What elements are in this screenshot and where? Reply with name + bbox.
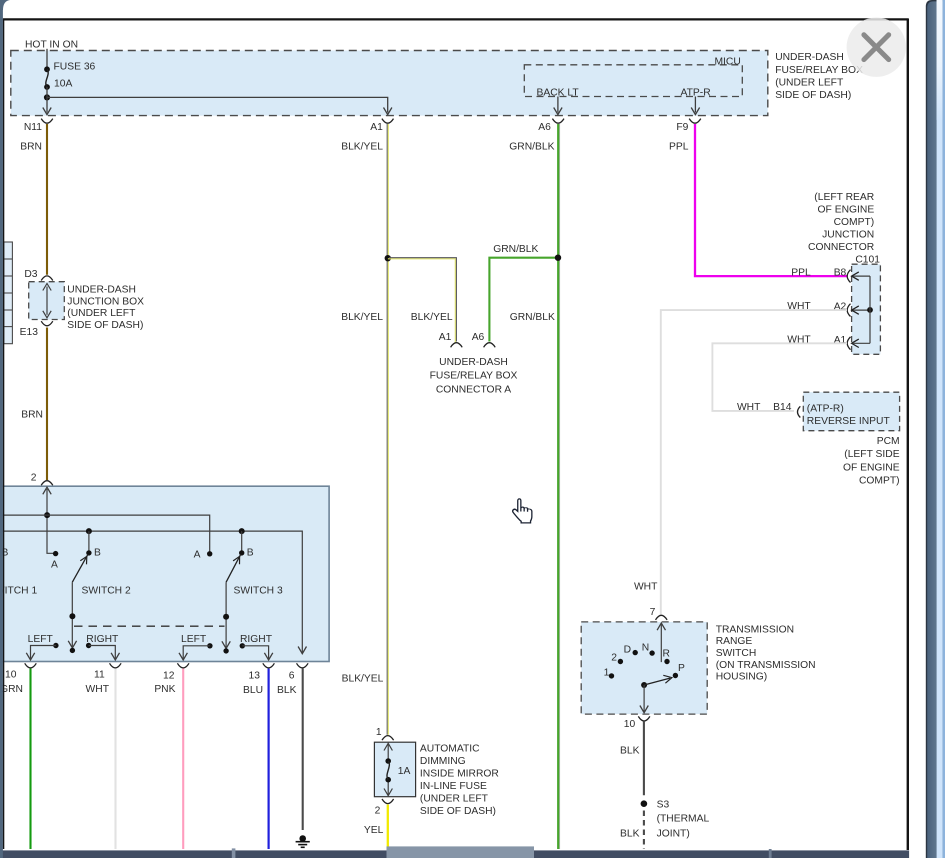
dashed gang line between switch 2 and 3 xyxy=(74,625,225,627)
wire bus line 1 xyxy=(0,515,210,551)
TRS pin 7 internal arrow xyxy=(657,623,665,662)
svg-text:RIGHT: RIGHT xyxy=(240,634,273,645)
switch 2 contacts xyxy=(51,548,131,597)
svg-text:A: A xyxy=(51,559,58,570)
svg-text:SWITCH 3: SWITCH 3 xyxy=(234,585,283,596)
svg-text:1: 1 xyxy=(376,727,382,738)
ground G401 xyxy=(296,835,310,847)
wire BRN N11 to D3 xyxy=(46,124,48,275)
label under-dash fuse/relay box connector A xyxy=(430,357,518,395)
C101 internal bus xyxy=(869,276,871,343)
svg-text:BLK/YEL: BLK/YEL xyxy=(411,312,453,323)
label transmission range switch xyxy=(716,624,816,682)
wire YEL below fuse xyxy=(364,805,388,850)
wire BLK dashed below S3 xyxy=(620,811,644,850)
node HOT IN ON xyxy=(25,40,78,69)
label junction connector C101 xyxy=(808,192,880,265)
svg-text:N: N xyxy=(642,642,649,653)
svg-text:RIGHT: RIGHT xyxy=(86,634,119,645)
label WHT above TRS xyxy=(634,582,658,593)
svg-text:IN-LINE FUSE: IN-LINE FUSE xyxy=(420,781,487,792)
svg-text:13: 13 xyxy=(249,670,261,681)
svg-text:7: 7 xyxy=(650,607,656,618)
label automatic dimming inside mirror in-line fuse xyxy=(420,744,499,818)
svg-text:JUNCTION BOX: JUNCTION BOX xyxy=(67,296,144,307)
wire WHT pin 11 xyxy=(114,669,116,850)
connector pin 2 (switch assembly) xyxy=(31,473,53,486)
svg-text:2: 2 xyxy=(611,653,617,664)
svg-text:(UNDER LEFT: (UNDER LEFT xyxy=(775,77,844,88)
svg-text:1A: 1A xyxy=(398,766,411,777)
connector pin 12 xyxy=(154,663,189,695)
svg-text:(ATP-R): (ATP-R) xyxy=(807,403,844,414)
svg-text:SIDE OF DASH): SIDE OF DASH) xyxy=(420,806,496,817)
svg-text:A6: A6 xyxy=(538,122,551,133)
switch 2 movable arm xyxy=(68,554,88,653)
svg-text:UNDER-DASH: UNDER-DASH xyxy=(775,52,844,63)
connector A pin A6 xyxy=(472,332,496,348)
svg-text:A6: A6 xyxy=(472,332,485,343)
svg-text:(LEFT SIDE: (LEFT SIDE xyxy=(844,449,899,460)
svg-text:S3: S3 xyxy=(657,799,670,810)
svg-text:INSIDE MIRROR: INSIDE MIRROR xyxy=(420,769,499,780)
svg-text:UNDER-DASH: UNDER-DASH xyxy=(439,357,508,368)
wire pin2 into box down to switch 2 contact A xyxy=(43,487,56,553)
svg-text:COMPT): COMPT) xyxy=(834,217,875,228)
wire WHT C101 A1 to PCM B14 xyxy=(712,334,847,413)
switch 3 movable arm xyxy=(222,554,241,653)
diagram groups injected below xyxy=(11,40,863,153)
svg-text:BRN: BRN xyxy=(20,142,42,153)
switch 3 RIGHT throw to pin 13 xyxy=(240,634,273,660)
svg-text:UNDER-DASH: UNDER-DASH xyxy=(67,285,136,296)
wire BRN E13 to pin 2 xyxy=(21,328,47,481)
svg-text:LEFT: LEFT xyxy=(28,634,54,645)
svg-text:SWITCH 1: SWITCH 1 xyxy=(0,585,37,596)
svg-text:BLK: BLK xyxy=(620,828,640,839)
svg-text:A1: A1 xyxy=(439,332,452,343)
svg-text:BRN: BRN xyxy=(21,410,43,421)
transmission range switch dashed box xyxy=(581,622,707,714)
svg-text:(LEFT REAR: (LEFT REAR xyxy=(814,192,874,203)
wire BLK/YEL main vertical A1 down xyxy=(385,124,391,735)
switch 3 contacts xyxy=(194,548,283,597)
svg-text:BLK/YEL: BLK/YEL xyxy=(341,142,383,153)
svg-text:FUSE/RELAY BOX: FUSE/RELAY BOX xyxy=(775,65,863,76)
label under-dash junction box xyxy=(67,285,144,331)
bottom scrollbar thumb xyxy=(387,846,535,858)
svg-text:BLK: BLK xyxy=(277,685,297,696)
svg-text:SIDE OF DASH): SIDE OF DASH) xyxy=(67,320,143,331)
svg-text:BLK/YEL: BLK/YEL xyxy=(342,674,384,685)
svg-text:(ON TRANSMISSION: (ON TRANSMISSION xyxy=(716,660,816,671)
connector pin F9 xyxy=(669,119,701,153)
svg-text:6: 6 xyxy=(289,670,295,681)
svg-text:YEL: YEL xyxy=(364,825,384,836)
wire fuse to N11 with junction xyxy=(43,87,51,115)
svg-text:PPL: PPL xyxy=(669,142,689,153)
wire PNK pin 12 xyxy=(182,669,184,850)
wire GRN/BLK branch to connector A pin A6 xyxy=(489,244,557,342)
svg-text:D3: D3 xyxy=(24,269,37,280)
svg-text:LEFT: LEFT xyxy=(181,634,207,645)
svg-text:PCM: PCM xyxy=(877,436,900,447)
svg-text:HOUSING): HOUSING) xyxy=(716,672,768,683)
fuse FUSE 36 10A xyxy=(44,62,95,90)
wire BLK pin 6 to ground xyxy=(302,669,304,831)
svg-text:WHT: WHT xyxy=(634,582,658,593)
svg-text:COMPT): COMPT) xyxy=(859,476,900,487)
TRS pole to pin 10 xyxy=(640,685,648,713)
wire bus line 2 xyxy=(0,528,307,654)
back-up light switch assembly box xyxy=(0,486,329,661)
connector pin 10 xyxy=(0,663,36,695)
svg-text:11: 11 xyxy=(94,669,105,680)
svg-text:TRANSMISSION: TRANSMISSION xyxy=(716,624,794,635)
svg-text:(UNDER LEFT: (UNDER LEFT xyxy=(67,308,136,319)
svg-text:F9: F9 xyxy=(676,122,688,133)
wire ATP-R drop to F9 xyxy=(691,97,699,115)
svg-text:CONNECTOR A: CONNECTOR A xyxy=(436,384,511,395)
svg-text:12: 12 xyxy=(163,670,175,681)
connector pin N11 xyxy=(20,119,53,153)
splice S3 thermal joint xyxy=(641,799,710,839)
svg-text:(THERMAL: (THERMAL xyxy=(657,813,710,824)
connector pin A1 xyxy=(341,119,393,153)
svg-text:2: 2 xyxy=(31,473,37,484)
svg-text:CONNECTOR: CONNECTOR xyxy=(808,242,874,253)
fuse element 1A xyxy=(385,758,410,782)
svg-text:OF ENGINE: OF ENGINE xyxy=(843,462,900,473)
switch 2 RIGHT throw to pin 11 xyxy=(86,634,120,660)
svg-text:N11: N11 xyxy=(24,122,42,133)
in-line fuse box xyxy=(374,742,415,797)
wire BACK LT drop to A6 xyxy=(554,97,562,115)
svg-text:FUSE 36: FUSE 36 xyxy=(54,62,96,73)
svg-text:BLK: BLK xyxy=(620,745,640,756)
svg-text:PNK: PNK xyxy=(154,684,175,695)
svg-text:GRN/BLK: GRN/BLK xyxy=(509,142,554,153)
under-dash fuse/relay box (dashed enclosure) xyxy=(11,51,768,116)
svg-text:A1: A1 xyxy=(370,122,383,133)
under-dash junction box D3/E13 xyxy=(29,282,65,320)
svg-text:HOT IN ON: HOT IN ON xyxy=(25,40,78,51)
mouse cursor xyxy=(512,498,533,523)
svg-text:B8: B8 xyxy=(834,268,847,279)
svg-text:JOINT): JOINT) xyxy=(657,828,690,839)
svg-text:10: 10 xyxy=(624,719,636,730)
wire fuse junction to A1 drop xyxy=(47,97,392,114)
TRS rotor arm to P xyxy=(641,675,672,688)
svg-text:GRN/BLK: GRN/BLK xyxy=(510,312,555,323)
svg-text:RANGE: RANGE xyxy=(716,636,753,647)
svg-text:E13: E13 xyxy=(20,327,39,338)
svg-text:(UNDER LEFT: (UNDER LEFT xyxy=(420,794,489,805)
junction connector C101 dashed box xyxy=(852,264,881,354)
svg-text:R: R xyxy=(663,649,670,660)
right page edge strips xyxy=(909,0,945,858)
svg-text:A: A xyxy=(194,550,201,561)
svg-text:FUSE/RELAY BOX: FUSE/RELAY BOX xyxy=(430,371,518,382)
svg-text:OF ENGINE: OF ENGINE xyxy=(818,204,875,215)
wire PPL F9 to C101 B8 xyxy=(695,124,847,279)
svg-text:2: 2 xyxy=(375,806,381,817)
PCM reverse input dashed box xyxy=(803,392,899,431)
close button xyxy=(847,18,906,77)
svg-text:SIDE OF DASH): SIDE OF DASH) xyxy=(775,90,851,101)
svg-text:WHT: WHT xyxy=(86,684,110,695)
svg-text:P: P xyxy=(678,663,685,674)
svg-text:WHT: WHT xyxy=(787,301,811,312)
connector pin 13 xyxy=(243,663,274,696)
svg-text:PPL: PPL xyxy=(791,268,811,279)
wire BLU pin 13 xyxy=(268,669,270,850)
wire GRN/BLK main vertical A6 down xyxy=(555,124,561,849)
left edge connector stack xyxy=(4,242,13,344)
MICU inner dashed box xyxy=(524,56,742,98)
wire GRN pin 10 xyxy=(29,669,31,850)
svg-text:SWITCH: SWITCH xyxy=(716,648,757,659)
left page edge strip xyxy=(0,0,10,858)
wire BLK/YEL branch to connector A pin A1 xyxy=(341,258,456,343)
svg-text:1: 1 xyxy=(604,668,610,679)
connector pin D3 xyxy=(24,269,52,281)
svg-text:WHT: WHT xyxy=(737,402,761,413)
connector pin 2 (in-line fuse) xyxy=(375,799,394,817)
connector pin A6 xyxy=(509,119,564,153)
connector pin E13 xyxy=(20,321,53,338)
label BLK/YEL lower xyxy=(342,674,384,685)
wire WHT C101 A2 to TRS pin 7 xyxy=(661,301,847,615)
svg-text:DIMMING: DIMMING xyxy=(420,756,466,767)
switch 1 (clipped at left) xyxy=(0,548,37,597)
connector pin 7 xyxy=(650,607,668,620)
svg-text:REVERSE INPUT: REVERSE INPUT xyxy=(807,416,891,427)
svg-text:D: D xyxy=(624,644,631,655)
svg-text:JUNCTION: JUNCTION xyxy=(822,229,874,240)
label PCM xyxy=(843,436,900,487)
connector pin 6 xyxy=(277,663,308,696)
svg-text:B: B xyxy=(247,548,254,559)
C101 pin B8 xyxy=(834,268,870,283)
connector pin 11 xyxy=(86,663,122,695)
svg-text:B: B xyxy=(94,548,101,559)
switch 3 LEFT throw to pin 12 xyxy=(179,634,213,660)
svg-text:BLK/YEL: BLK/YEL xyxy=(341,312,383,323)
switch 2 LEFT throw to pin 10 xyxy=(26,634,58,660)
label under-dash fuse/relay box xyxy=(775,52,863,101)
connector pin 10 xyxy=(624,716,650,730)
svg-text:GRN/BLK: GRN/BLK xyxy=(493,244,538,255)
svg-text:BLU: BLU xyxy=(243,685,263,696)
bottom scrollbar track xyxy=(0,848,927,858)
C101 pin A2 xyxy=(834,302,873,317)
svg-text:MICU: MICU xyxy=(714,56,740,67)
wire BLK TRS to S3 xyxy=(620,721,644,795)
C101 pin A1 xyxy=(834,335,870,350)
svg-text:B14: B14 xyxy=(773,402,792,413)
svg-text:AUTOMATIC: AUTOMATIC xyxy=(420,744,480,755)
svg-text:10: 10 xyxy=(5,669,17,680)
svg-text:WHT: WHT xyxy=(787,334,811,345)
connector A pin A1 xyxy=(439,332,462,348)
svg-text:10A: 10A xyxy=(54,79,72,90)
connector pin B14 xyxy=(773,402,800,418)
TRS position contacts xyxy=(604,642,685,678)
connector pin 1 (in-line fuse) xyxy=(376,727,394,740)
svg-text:SWITCH 2: SWITCH 2 xyxy=(82,585,131,596)
